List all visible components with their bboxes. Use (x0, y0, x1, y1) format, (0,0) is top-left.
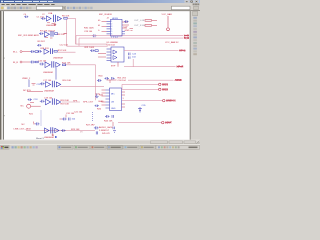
IC U6 inner text blue (111, 94, 115, 96)
IC U2 pin bars second (51, 48, 53, 54)
op-amp U9B (55, 128, 59, 132)
dashed net line (40, 111, 42, 127)
op-amp U7B (56, 82, 60, 87)
wire (62, 101, 80, 103)
wire (122, 24, 129, 26)
op-amp U1B (58, 16, 62, 20)
connector right ticks (122, 31, 125, 34)
wire (98, 56, 106, 58)
svg-text:OUT_R 0R: OUT_R 0R (134, 25, 145, 27)
port IN_R label (13, 62, 18, 64)
capacitor C31 (62, 118, 70, 121)
svg-text:C30 104: C30 104 (107, 45, 116, 47)
IC U1 pin bars (54, 15, 56, 22)
capacitor C4 (24, 16, 28, 18)
svg-text:SPK_OUT: SPK_OUT (83, 101, 94, 103)
capacitor C25 (95, 105, 99, 107)
resistor R16 label (63, 80, 72, 82)
svg-text:VCC_BAR 5V: VCC_BAR 5V (165, 41, 179, 44)
svg-text:R44 10K: R44 10K (104, 120, 113, 122)
connector pin names blue (111, 37, 118, 39)
IC U6 inner text blue 3 (111, 108, 116, 110)
op-amp U8B (56, 100, 60, 105)
svg-text:R19 10K: R19 10K (61, 103, 70, 105)
svg-text:C28 104: C28 104 (84, 31, 93, 33)
net label (29, 114, 34, 116)
menu bar (0, 3, 200, 6)
port SPK label (21, 106, 25, 108)
wire stub (112, 122, 114, 126)
wire (55, 68, 57, 80)
capacitor C26 (124, 20, 129, 23)
capacitor C9 (37, 44, 41, 46)
svg-text:NC R15: NC R15 (23, 90, 32, 92)
power VCC rail (167, 16, 169, 28)
port LINE_IN label (166, 100, 176, 103)
capacitor C40 (97, 79, 102, 82)
svg-text:LM4880M: LM4880M (44, 91, 54, 93)
wire (122, 27, 127, 29)
op-amp U1A (47, 16, 52, 21)
IC U6 pins (106, 90, 110, 108)
reference U4 label (38, 61, 47, 63)
svg-text:R9 2K2: R9 2K2 (38, 41, 46, 43)
title bar (0, 0, 200, 3)
capacitor C1 value label (37, 17, 45, 19)
net label (124, 26, 129, 28)
wire (31, 105, 41, 107)
svg-text:LM4880M: LM4880M (53, 58, 63, 60)
net label (86, 124, 95, 126)
capacitor C19 (40, 100, 45, 103)
note mark (55, 136, 57, 138)
wire HP out (124, 50, 179, 52)
net label AUDIO 3 (102, 133, 110, 135)
connector J2 body (111, 19, 123, 36)
reference U2 label (40, 48, 49, 50)
net label (97, 109, 102, 111)
svg-text:IN_L: IN_L (13, 51, 18, 53)
cluster caps (105, 115, 114, 118)
net label (84, 31, 93, 33)
cluster caps 2 (113, 127, 116, 133)
reference U5 label (107, 42, 119, 44)
value label (107, 45, 116, 47)
wire LINE_IN (122, 100, 163, 102)
sheet note label (18, 34, 39, 37)
capacitor C22 red marks (33, 122, 35, 124)
IC U6 inner text blue 2 (111, 102, 115, 104)
pin net labels (98, 20, 101, 32)
net label (125, 30, 130, 32)
net label top right (165, 41, 179, 44)
capacitor C31 label (66, 113, 75, 115)
svg-text:MIC_IN HDR: MIC_IN HDR (99, 14, 112, 16)
value label (53, 58, 63, 60)
capacitor C2 label (42, 14, 45, 16)
svg-text:Sheet 3: Sheet 3 (36, 137, 44, 140)
net label C4 (24, 14, 27, 16)
value label (43, 72, 53, 74)
capacitor C8 (39, 32, 44, 35)
svg-text:U5 LM4880: U5 LM4880 (107, 42, 119, 44)
wire (95, 65, 97, 100)
port IN_L (20, 51, 22, 53)
reference U1 label (48, 12, 53, 15)
svg-text:R30 100K: R30 100K (84, 28, 94, 30)
power VCC node (167, 28, 170, 31)
capacitor C16 (32, 83, 36, 85)
resistor R14 label (62, 62, 71, 64)
port MIC1 label (162, 83, 169, 86)
reference U7 label (43, 80, 52, 82)
capacitor C24 value blue (132, 57, 136, 59)
svg-text:NC: NC (22, 124, 26, 126)
wire (117, 62, 119, 67)
IC U2 pin bars (51, 31, 53, 37)
port label LINE_OUT (14, 128, 32, 131)
wire (66, 20, 68, 47)
capacitor C17 (40, 82, 45, 85)
svg-text:VREF_2: VREF_2 (22, 78, 31, 80)
wire (28, 80, 30, 87)
IC U5 inner marks (113, 50, 117, 60)
svg-text:R23 10K: R23 10K (71, 129, 80, 131)
capacitor C24 label blue (132, 53, 137, 55)
resistor R5 label (62, 15, 70, 17)
port IN_R (20, 61, 22, 63)
svg-text:VCC_BAR: VCC_BAR (162, 13, 173, 16)
svg-text:R16 10K: R16 10K (63, 80, 72, 82)
op-amp U2B (44, 49, 49, 54)
wire (22, 51, 30, 53)
net label (99, 75, 104, 77)
IC U5 pins (107, 49, 112, 61)
wire LINE_OUT (26, 130, 95, 132)
sheet zone tick (3, 57, 5, 60)
op-amp U4B (56, 62, 60, 67)
op-amp U8A (46, 99, 51, 105)
svg-text:C34 104: C34 104 (118, 80, 127, 82)
net label HP_L (184, 34, 189, 38)
net label AUDIO 2 (99, 130, 110, 132)
value label blue (34, 99, 39, 101)
cluster caps (105, 77, 115, 80)
resistor R7 label (40, 30, 56, 32)
wire (152, 24, 157, 26)
port MIC1 (159, 83, 161, 85)
svg-text:3.5MM ST: 3.5MM ST (99, 130, 110, 132)
resistor R3 (35, 51, 38, 53)
value label blue (37, 84, 42, 86)
pin stub wires (102, 21, 107, 31)
value label blue (112, 18, 119, 20)
svg-text:R27 4R7: R27 4R7 (86, 124, 95, 126)
ground (54, 22, 56, 25)
capacitor C1 (41, 17, 46, 20)
net label (60, 44, 69, 46)
power VCC label (162, 13, 173, 16)
resistor R12 label (58, 50, 67, 52)
resistor R36 (145, 25, 152, 27)
net label (175, 79, 183, 82)
svg-text:C17 104: C17 104 (43, 80, 52, 82)
net label HP_R (184, 36, 189, 40)
IC U6 body (110, 88, 122, 111)
wire (128, 79, 174, 81)
wire (64, 33, 67, 35)
IC U8 pin bars (52, 98, 54, 104)
svg-text:SPK: SPK (73, 101, 78, 103)
task buttons (58, 145, 156, 149)
status bar (0, 140, 200, 145)
port LINE_IN (163, 99, 165, 101)
svg-text:6: 6 (111, 34, 112, 36)
wire stub (107, 80, 117, 83)
op-amp U7A (46, 82, 51, 88)
sheet frame left border (2, 11, 5, 140)
schematic client area (2, 11, 189, 140)
resistor R5 (64, 17, 67, 19)
IC U5 body (111, 47, 124, 62)
wire (76, 43, 108, 45)
wire (60, 85, 104, 87)
reference U8 label (44, 97, 53, 99)
toolbar (0, 6, 200, 11)
wire (75, 18, 77, 44)
svg-text:GND: GND (125, 30, 130, 32)
net label NC (23, 90, 32, 92)
reference U3 label (107, 18, 110, 20)
resistor R23 label (71, 129, 80, 131)
red pin marks row2 (45, 36, 53, 39)
svg-text:M+: M+ (98, 20, 101, 22)
port IN_L label (13, 51, 18, 53)
net label (22, 78, 31, 80)
resistor R35 (145, 20, 152, 22)
capacitor C20 (95, 94, 99, 98)
resistor R8 label (58, 34, 66, 36)
svg-text:R7 22K C8 104: R7 22K C8 104 (40, 30, 56, 32)
svg-text:MIC_IN 3.5MM JACK: MIC_IN 3.5MM JACK (18, 34, 39, 37)
svg-text:R8 10K: R8 10K (58, 34, 66, 36)
net label (99, 100, 105, 103)
capacitor C35 (138, 109, 142, 111)
connector J2 pins (107, 21, 111, 34)
quick launch (12, 146, 38, 148)
port MIC2 (159, 88, 161, 90)
resistor R18 label (61, 100, 70, 102)
IC U7 pin bars (52, 81, 54, 87)
wire stub (65, 115, 67, 118)
capacitor C28 (92, 34, 97, 37)
svg-text:AUDIO_JACK: AUDIO_JACK (99, 126, 113, 129)
wire (66, 64, 96, 66)
capacitor C22 (35, 122, 40, 125)
svg-text:BYP: BYP (111, 65, 116, 67)
net label (177, 65, 184, 69)
svg-text:U1A: U1A (48, 12, 53, 15)
wire (152, 19, 157, 21)
window buttons (185, 0, 199, 2)
port SPK (27, 104, 31, 108)
wire (58, 51, 76, 53)
net label (111, 65, 116, 67)
net label row2 (118, 80, 127, 82)
resistor R4 (35, 61, 38, 63)
wire MIC1 (122, 83, 159, 85)
port LOUT label (165, 122, 172, 125)
capacitor C6 (30, 61, 35, 64)
note text (36, 137, 44, 140)
IC U4 pin bars (52, 61, 54, 67)
cluster K caps (94, 126, 99, 134)
svg-text:C31 104: C31 104 (66, 113, 75, 115)
net stub (130, 29, 134, 31)
svg-text:IN_R: IN_R (13, 62, 18, 64)
svg-text:LIN: LIN (111, 102, 115, 104)
reference U1 value label (46, 25, 56, 27)
left window border (0, 11, 1, 140)
wire HP_L (76, 35, 183, 37)
net label AUDIO (99, 126, 113, 129)
capacitor C13 (38, 50, 42, 53)
net label (179, 49, 186, 53)
wire (98, 52, 106, 54)
svg-text:HDR5: HDR5 (112, 18, 119, 20)
red pin marks (47, 22, 55, 25)
window chrome background (0, 0, 200, 150)
svg-text:LM4880M: LM4880M (43, 72, 53, 74)
port LOUT (162, 121, 164, 123)
wire (78, 38, 80, 46)
resistor R14 (63, 64, 66, 66)
system tray (156, 145, 200, 149)
ground (52, 133, 54, 135)
right tool palette (190, 11, 200, 140)
wire (121, 84, 123, 89)
wire (27, 91, 43, 93)
net label faint (80, 131, 83, 133)
svg-text:MIC: MIC (111, 94, 115, 96)
svg-text:R41 2K2: R41 2K2 (118, 77, 127, 79)
svg-text:C21 104: C21 104 (74, 112, 83, 114)
op-amp U4A (45, 62, 50, 68)
net label (104, 120, 113, 122)
port MIC2 label (162, 88, 169, 91)
svg-text:R31 100K: R31 100K (85, 47, 95, 49)
wire MIC2 (122, 88, 159, 90)
net note OUT_L (134, 20, 145, 22)
net label smudges right edge (163, 35, 190, 123)
wire (132, 59, 134, 67)
capacitor C15 (39, 63, 44, 66)
start button (1, 145, 10, 149)
resistor R19 label (61, 103, 70, 105)
svg-text:LINE_OUT_JACK: LINE_OUT_JACK (14, 128, 32, 131)
capacitor C35 label blue (142, 105, 147, 107)
svg-text:R45 47K: R45 47K (102, 133, 110, 135)
wire (67, 45, 108, 47)
svg-text:1 2 3 4: 1 2 3 4 (111, 37, 118, 39)
taskbar (0, 144, 200, 150)
resistor R32 (95, 50, 98, 52)
value label (44, 91, 54, 93)
wire (22, 61, 30, 63)
value label below (44, 137, 54, 139)
wire HP_R out (124, 66, 176, 68)
capacitor C31 value blue (72, 119, 76, 121)
wire (67, 17, 75, 19)
svg-text:LM4880M: LM4880M (44, 137, 54, 139)
wire (75, 36, 77, 45)
wire HP_R (79, 37, 183, 39)
pin stub wires left (102, 90, 106, 105)
combo box (37, 6, 63, 10)
svg-text:NC: NC (21, 106, 25, 108)
resistor R12 (54, 50, 57, 52)
capacitor C29 (90, 49, 95, 52)
net label (73, 101, 78, 103)
net label (74, 112, 83, 114)
capacitor C18 (28, 98, 32, 101)
net label (85, 47, 95, 49)
svg-text:OUT_L 0R: OUT_L 0R (134, 20, 145, 22)
sheet zone tick (3, 115, 5, 118)
dashed net line (92, 112, 94, 122)
header label (99, 14, 112, 16)
op-amp U9A (45, 128, 50, 133)
net label left mid (99, 95, 104, 97)
wire LOUT (118, 122, 162, 124)
svg-text:3: 3 (123, 98, 124, 100)
net note OUT_R (134, 25, 145, 27)
resistor R8 (55, 33, 58, 35)
net label NC (22, 124, 26, 126)
IC U9 pin bars (51, 127, 53, 133)
capacitor C5 (30, 50, 35, 53)
wire (122, 21, 128, 23)
op-amp U2A (45, 32, 50, 37)
connector pin numbers inside (111, 21, 112, 36)
net label SPK_OUT (83, 101, 94, 103)
svg-text:C1 104: C1 104 (37, 17, 45, 19)
capacitor C31 red marks (60, 118, 62, 120)
capacitor C24 (129, 53, 131, 59)
net label (118, 77, 127, 79)
net stub (30, 102, 34, 104)
net label MIC bias (38, 41, 46, 43)
net label C20 (96, 94, 101, 96)
capacitor C23 (61, 129, 66, 132)
net label (84, 28, 94, 30)
svg-text:BIAS: BIAS (99, 100, 105, 103)
pin stub wires right (122, 92, 126, 107)
dashed stub (139, 107, 141, 113)
pin number label (123, 98, 124, 100)
svg-text:GND: GND (111, 108, 116, 110)
toolbar bottom separator (0, 9, 200, 12)
